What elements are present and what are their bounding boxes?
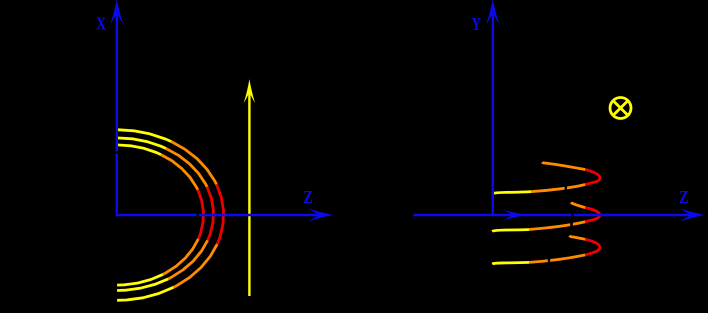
field symbol B into page (circle-cross) <box>610 98 631 119</box>
axis Z (left panel horizontal) <box>116 208 333 221</box>
velocity arrowhead on Z axis <box>503 209 526 220</box>
field arrow B (yellow, left panel) <box>244 79 256 296</box>
axis gap artifact left vertical <box>115 151 119 153</box>
svg-text:Z: Z <box>303 187 312 207</box>
svg-text:Z: Z <box>679 187 688 207</box>
axis X (left panel vertical) <box>110 0 123 216</box>
axis gap artifact right horizontal <box>571 213 573 217</box>
wire spiral arc middle (left panel) <box>117 138 213 291</box>
polyline gap artifact helix loop 3 <box>548 258 550 264</box>
polyline gap artifact helix loop 2 <box>570 223 573 229</box>
axis Z (right panel horizontal) <box>413 208 705 221</box>
svg-text:X: X <box>96 14 106 34</box>
wire spiral arc inner (left panel) <box>117 145 203 285</box>
svg-text:Y: Y <box>472 14 481 34</box>
wire spiral arc outer (left panel) <box>117 130 223 301</box>
wire helix loop 3 bottom (right panel) <box>492 236 600 264</box>
axis gap artifact left horizontal <box>197 213 199 217</box>
wire helix loop 2 middle (right panel) <box>492 202 600 231</box>
wire helix loop 1 top (right panel) <box>492 162 600 194</box>
axis Y (right panel vertical) <box>486 0 499 216</box>
polyline gap artifact helix loop 1 <box>565 186 567 191</box>
